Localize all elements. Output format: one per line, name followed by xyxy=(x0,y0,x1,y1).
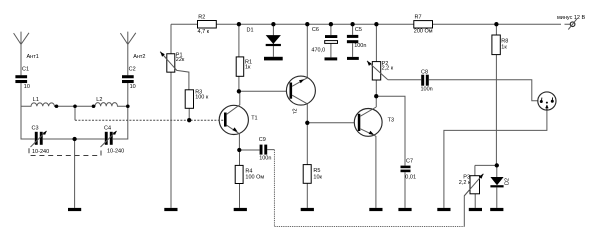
svg-text:100 к: 100 к xyxy=(195,95,209,101)
svg-text:C1: C1 xyxy=(22,67,29,73)
svg-text:100 Ом: 100 Ом xyxy=(245,174,264,180)
transistor T1 body xyxy=(219,105,248,134)
transistor T2 emitter lead xyxy=(292,78,307,87)
transistor T2 collector lead xyxy=(292,95,307,104)
wire: dashed feedback from C9 down xyxy=(273,150,275,227)
svg-text:10-240: 10-240 xyxy=(107,148,124,154)
ground below C6 xyxy=(325,57,338,60)
svg-text:T1: T1 xyxy=(251,115,257,121)
wire: node B to P3 top xyxy=(475,165,497,175)
junction dot base line R3 xyxy=(187,118,191,122)
svg-text:D1: D1 xyxy=(247,28,254,34)
junction dot emitter node T1 xyxy=(237,148,241,152)
transistor T2 emitter arrow xyxy=(299,79,304,83)
potentiometer P3 wiper diagonal xyxy=(464,174,483,196)
svg-text:C4: C4 xyxy=(104,125,111,131)
wire: dashed base line to T1 xyxy=(75,119,224,121)
wire: C1 down to tuned loop xyxy=(21,83,35,139)
wire: P1 wiper to R3 xyxy=(160,52,189,90)
svg-text:10-240: 10-240 xyxy=(32,149,49,155)
svg-text:т2: т2 xyxy=(292,108,298,114)
resistor R5 xyxy=(303,165,311,184)
capacitor C8 plates xyxy=(421,75,424,86)
wire: node B to D2 xyxy=(496,165,498,177)
svg-text:R2: R2 xyxy=(198,14,205,20)
terminal minus 12V xyxy=(570,22,575,27)
svg-text:4,7 к: 4,7 к xyxy=(198,29,210,35)
potentiometer P1 wiper arrow xyxy=(160,52,165,57)
ground below R5 xyxy=(301,208,314,211)
capacitor C5 plates xyxy=(347,35,358,38)
wire: R3 bottom to base line junction xyxy=(188,108,190,120)
wire: T3 emitter down to ground xyxy=(375,136,377,208)
svg-text:100n: 100n xyxy=(421,87,433,93)
ground below P1 xyxy=(164,208,177,211)
capacitor C9 plates xyxy=(260,145,263,155)
svg-text:100n: 100n xyxy=(354,43,366,49)
wire: T1 emitter node to R4 and ground xyxy=(239,150,241,208)
svg-text:C8: C8 xyxy=(421,70,428,76)
svg-text:10к: 10к xyxy=(313,175,322,181)
svg-text:C2: C2 xyxy=(129,67,136,73)
wire: tuned circuit top with L1 L2 xyxy=(21,103,128,107)
potentiometer P3 wiper arrow xyxy=(479,174,484,179)
junction dots tuned top wire xyxy=(55,104,59,108)
wire: C7 bottom to ground xyxy=(404,172,406,208)
svg-text:R8: R8 xyxy=(501,38,508,44)
svg-text:T3: T3 xyxy=(388,117,394,123)
svg-text:C7: C7 xyxy=(406,158,413,164)
svg-text:C6: C6 xyxy=(312,27,319,33)
capacitor C4 plates xyxy=(105,132,108,145)
junction dot tuned loop bottom center xyxy=(72,137,76,141)
junction dot collector node T1 xyxy=(237,89,241,93)
svg-text:C9: C9 xyxy=(259,137,266,143)
svg-text:100n: 100n xyxy=(259,156,271,162)
capacitor C3 plates xyxy=(35,132,38,145)
ground below D1 xyxy=(264,57,283,61)
capacitor C3 trimmer arrow xyxy=(31,131,47,147)
wire: T2 collector down to R5 and ground xyxy=(306,104,308,208)
ground below T3 emitter xyxy=(369,208,382,211)
svg-text:L2: L2 xyxy=(96,97,102,103)
wire: T3 collector up to node A xyxy=(375,96,377,107)
wire: C8 to jack xyxy=(429,80,538,101)
ground below C5 xyxy=(347,57,359,60)
antenna Ant2 xyxy=(120,32,135,76)
transistor T3 collector lead xyxy=(360,107,376,116)
wire: D2 cathode to ground xyxy=(496,187,498,208)
wire: top supply rail xyxy=(171,23,570,25)
svg-text:470,0: 470,0 xyxy=(311,48,325,54)
wire: center tap of C3/C4 down to ground xyxy=(74,139,76,208)
wire: center tap of L1/L2 down to base line xyxy=(74,106,76,120)
wire: jack sleeve down and left to ground xyxy=(444,110,547,208)
wire: tuned loop bottom between C3 and C4 xyxy=(43,138,105,140)
potentiometer P2 wiper diagonal xyxy=(367,61,388,80)
capacitor C1 plates xyxy=(15,75,27,78)
potentiometer P1 body xyxy=(167,54,175,72)
wire: P2 wiper to C8 xyxy=(388,79,422,81)
capacitor C2 plates xyxy=(122,75,134,78)
svg-text:L1: L1 xyxy=(33,97,39,103)
wire: C5 stem xyxy=(352,24,354,57)
transistor T1 base bar xyxy=(224,113,227,127)
transistor T3 base bar xyxy=(358,114,361,131)
ground below D2 xyxy=(490,208,503,211)
wire: T1 emitter node to C9 xyxy=(239,149,274,151)
svg-text:R7: R7 xyxy=(415,14,422,20)
ground below jack sleeve xyxy=(437,208,450,211)
resistor R3 xyxy=(185,90,193,109)
wire: left branch from rail down to P1 and ground xyxy=(170,24,172,208)
wire: P3 wiper diagonal and drop xyxy=(464,174,483,227)
wire: P2 stem from rail xyxy=(375,24,377,61)
wire: dashed gang coupling C3-C4 xyxy=(29,148,101,155)
potentiometer P2 body xyxy=(372,62,380,80)
transistor T1 collector lead xyxy=(227,91,240,114)
svg-text:2,2 к: 2,2 к xyxy=(382,66,394,72)
svg-text:D2: D2 xyxy=(504,178,510,185)
resistor R2 xyxy=(198,21,217,29)
capacitor C4 trimmer arrow xyxy=(101,131,117,147)
svg-text:Ант2: Ант2 xyxy=(133,54,145,60)
capacitor C6 plates electrolytic xyxy=(325,35,337,38)
wire: node A to C7 xyxy=(376,96,405,165)
svg-text:1к: 1к xyxy=(501,45,507,51)
wire: R8 stem from rail down to node xyxy=(495,24,497,165)
svg-text:C5: C5 xyxy=(355,27,362,33)
wire: P2 bottom to node A xyxy=(375,80,377,96)
resistor R8 xyxy=(492,35,500,55)
potentiometer P3 body xyxy=(470,176,480,194)
wire: D1 stem from rail xyxy=(272,24,274,57)
capacitor C7 plates xyxy=(401,166,411,169)
svg-text:22к: 22к xyxy=(176,57,185,63)
potentiometer P2 wiper arrow xyxy=(367,61,372,66)
resistor R1 xyxy=(236,57,244,76)
transistor T2 base bar xyxy=(290,83,293,99)
ground below P3 xyxy=(469,208,482,211)
svg-text:2,2 к: 2,2 к xyxy=(459,180,471,186)
wire: T2 emitter wire to rail xyxy=(306,24,308,78)
wire: P3 bottom to ground xyxy=(474,194,476,208)
transistor T2 body xyxy=(286,76,315,105)
transistor T3 body xyxy=(354,109,382,137)
ground below C7 xyxy=(398,208,411,211)
junction dots on rail xyxy=(237,22,241,26)
transistor T1 emitter lead xyxy=(227,125,240,150)
resistor R7 xyxy=(414,21,433,28)
junction dot T2 collector node xyxy=(305,121,309,125)
wire: C2 down through tuned loop right side xyxy=(113,83,128,139)
svg-text:минус 12 В: минус 12 В xyxy=(557,15,586,21)
svg-text:10: 10 xyxy=(24,84,30,90)
svg-text:C3: C3 xyxy=(32,126,39,132)
svg-text:1к: 1к xyxy=(245,65,251,71)
transistor T1 emitter arrow xyxy=(233,127,238,131)
svg-text:Ант1: Ант1 xyxy=(27,54,39,60)
transistor T3 emitter arrow xyxy=(369,131,374,135)
ground below R4 xyxy=(234,208,247,211)
junction dot node A T3 collector xyxy=(374,94,378,98)
wire: dashed feedback bottom run to P3 wiper xyxy=(274,226,464,228)
potentiometer P1 wiper diagonal xyxy=(160,52,177,71)
antenna Ant1 xyxy=(14,32,29,76)
junction dot node B R8/P3/D2 xyxy=(495,163,499,167)
svg-text:0,01: 0,01 xyxy=(405,174,416,180)
diode D2 xyxy=(490,177,503,185)
ground below C3/C4 center tap xyxy=(68,208,81,211)
diode D1 xyxy=(266,35,281,44)
svg-text:R5: R5 xyxy=(313,168,320,174)
wire: C6 stem xyxy=(330,24,332,57)
jack connector pins xyxy=(540,100,543,103)
wire: base wire from collector node to T2 xyxy=(239,90,290,92)
svg-text:200 Ом: 200 Ом xyxy=(414,28,433,34)
wire: R1 branch from rail to collector node xyxy=(238,24,240,91)
resistor R4 xyxy=(235,165,243,183)
transistor T3 emitter lead xyxy=(360,129,376,136)
svg-text:10: 10 xyxy=(130,84,136,90)
wire: T2 collector node to T3 base xyxy=(307,122,357,124)
jack connector X1 body xyxy=(538,92,556,110)
